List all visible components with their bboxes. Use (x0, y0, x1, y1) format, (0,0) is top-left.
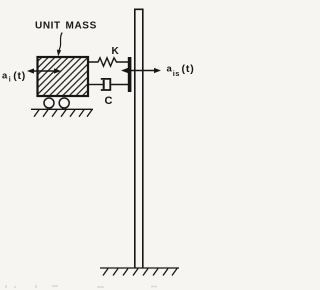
mass block M (hatched) (38, 57, 89, 96)
arrow a_is(t) (double-headed) (121, 68, 161, 73)
svg-text:a: a (167, 64, 173, 75)
svg-text:i: i (9, 77, 11, 84)
roller 2 (59, 98, 69, 108)
ground under rollers (31, 109, 93, 117)
damper C (89, 79, 128, 90)
svg-text:K: K (112, 46, 120, 57)
spring K (89, 58, 128, 66)
leader arrow from label to mass (59, 33, 62, 51)
svg-text:is: is (173, 69, 180, 78)
svg-text:(t): (t) (13, 70, 26, 82)
rod right (110, 84, 128, 86)
cylinder (open left) (101, 79, 111, 90)
faint cropped caption remnants at bottom (6, 285, 157, 288)
support plate on wall (128, 57, 132, 92)
svg-text:a: a (2, 71, 8, 82)
svg-text:(t): (t) (182, 63, 195, 75)
piston rod left (89, 84, 104, 86)
wall column (135, 9, 143, 268)
piston plate (103, 80, 105, 89)
svg-text:UNIT MASS: UNIT MASS (35, 21, 97, 32)
ground under column (100, 268, 179, 276)
roller 1 (44, 98, 54, 108)
svg-text:C: C (105, 95, 113, 107)
arrow a_i(t) (double-headed) (27, 68, 61, 73)
